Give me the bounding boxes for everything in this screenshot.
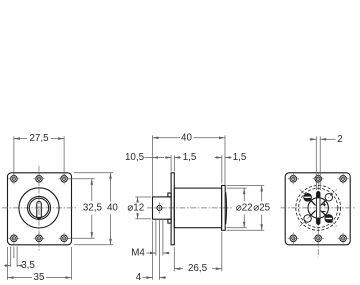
middle view bottom tab <box>168 219 171 223</box>
dimension d12 line arrows and label <box>136 197 139 203</box>
svg-text:3,5: 3,5 <box>21 260 35 271</box>
dimension d25 line arrows and label <box>260 186 263 192</box>
middle view M4 hole circle <box>157 205 162 210</box>
svg-text:40: 40 <box>181 132 192 143</box>
svg-text:10,5: 10,5 <box>125 152 145 163</box>
left view mounting hole top-right <box>61 176 68 183</box>
right view terminal screw lower-right <box>325 215 333 223</box>
right view diagonal centerline NW-SE <box>300 189 337 226</box>
left view mounting hole top-left <box>11 176 18 183</box>
right view inner spoke NE <box>321 201 325 205</box>
dimension d22 line arrows and label <box>243 188 246 194</box>
left view body circle d22 <box>19 188 59 228</box>
right view vent hole lower-left <box>304 215 311 222</box>
svg-text:40: 40 <box>107 202 118 213</box>
svg-text:35: 35 <box>34 272 45 283</box>
right view center slot <box>317 192 321 225</box>
dimension 1,5 left extension lines <box>170 155 172 171</box>
middle view shaft outline <box>153 197 172 219</box>
dimension 32,5 line and arrows <box>91 179 93 201</box>
dimension d12 extension lines <box>135 196 151 198</box>
middle view flange plate <box>171 173 174 245</box>
right view mounting hole bottom-left <box>290 235 297 242</box>
middle view motor body d22 <box>174 188 221 228</box>
right view polarity mark minus <box>322 210 325 212</box>
left view vertical centerline <box>38 166 40 251</box>
right view hidden circle d22 <box>299 188 338 227</box>
svg-text:4: 4 <box>136 272 142 283</box>
dimension 3,5 extension lines at hole edges <box>10 247 12 268</box>
dimension 26,5 extension lines <box>173 247 175 271</box>
dimension 32,5 extension lines <box>68 178 95 180</box>
left view shaft slot <box>37 202 42 219</box>
right view flange plate outline <box>285 173 350 245</box>
right view vertical centerline <box>317 174 319 258</box>
right view mounting hole bottom-middle <box>315 235 322 242</box>
right view mounting hole top-middle <box>315 176 322 183</box>
left view bottom hole centerline extension <box>13 247 15 259</box>
dimension 40 extension lines <box>74 172 113 174</box>
left view shaft chamfer circle <box>29 198 48 217</box>
right view vent hole upper-right <box>325 194 332 201</box>
dimension 2 extension lines <box>315 136 317 190</box>
dimension 1,5 right arrows and label <box>216 156 222 159</box>
left view shaft circle d12 <box>28 196 51 219</box>
dimension 27,5 line and arrows <box>14 138 27 140</box>
dimension 35 extension line left <box>6 247 8 280</box>
right view inner spoke NW <box>311 201 315 205</box>
svg-text:27,5: 27,5 <box>29 133 49 144</box>
dimension 26,5 line arrows and label <box>174 268 183 270</box>
dimension 1,5 right extension line <box>221 155 223 183</box>
svg-text:⌀12: ⌀12 <box>127 202 144 213</box>
right view inner spoke SW <box>311 211 315 215</box>
dimension M4 extension lines <box>155 220 157 256</box>
dimension 3,5 arrows <box>4 265 11 267</box>
svg-text:1,5: 1,5 <box>183 152 197 163</box>
right view mounting hole top-right <box>340 176 347 183</box>
right view diagonal centerline NE-SW <box>300 189 337 226</box>
svg-text:26,5: 26,5 <box>188 263 208 274</box>
dimension d25 extension lines <box>227 185 265 187</box>
middle view end cap arc <box>225 192 228 224</box>
middle view top tab <box>168 193 171 197</box>
middle view end cap ring d25 <box>222 186 226 231</box>
svg-text:32,5: 32,5 <box>83 202 103 213</box>
dimension 40 line and arrows middle view <box>153 137 181 139</box>
dimension 35 extension line right <box>71 247 73 280</box>
dimension 27,5 extension lines <box>13 136 15 176</box>
right view polarity mark plus <box>323 203 326 206</box>
right view center slot dark bottom end <box>317 218 321 225</box>
right view mounting hole bottom-right <box>340 235 347 242</box>
right view inner spoke SE <box>321 211 325 215</box>
svg-text:M4: M4 <box>131 248 145 259</box>
right view mounting hole top-left <box>290 176 297 183</box>
left view mounting hole top-middle <box>36 176 43 183</box>
dimension 4 extension lines <box>152 221 154 280</box>
right view center slot dark top end <box>317 192 321 199</box>
right view hidden circle d25 <box>296 186 341 231</box>
dimension d22 extension lines <box>227 187 247 189</box>
left view mounting hole bottom-right <box>61 235 68 242</box>
middle view horizontal centerline <box>147 207 233 209</box>
right view inner circle <box>308 198 328 218</box>
svg-text:2: 2 <box>337 134 342 145</box>
dimension 35 line and arrows <box>8 277 33 279</box>
dimension 1,5 left arrows and label <box>174 156 180 159</box>
left view horizontal centerline <box>2 207 76 209</box>
svg-text:⌀25: ⌀25 <box>253 202 270 213</box>
svg-text:⌀22: ⌀22 <box>236 202 253 213</box>
right view horizontal centerline <box>281 207 355 209</box>
left view flange plate outline <box>8 173 72 245</box>
right view terminal screw upper-left <box>304 193 312 201</box>
dimension 40 line and arrows <box>110 173 112 202</box>
dimension 2 arrows and label <box>310 138 316 141</box>
dimension 40 extension lines middle view <box>152 135 154 197</box>
left view mounting hole bottom-middle <box>36 235 43 242</box>
left view mounting hole bottom-left <box>11 235 18 242</box>
svg-text:1,5: 1,5 <box>233 152 247 163</box>
